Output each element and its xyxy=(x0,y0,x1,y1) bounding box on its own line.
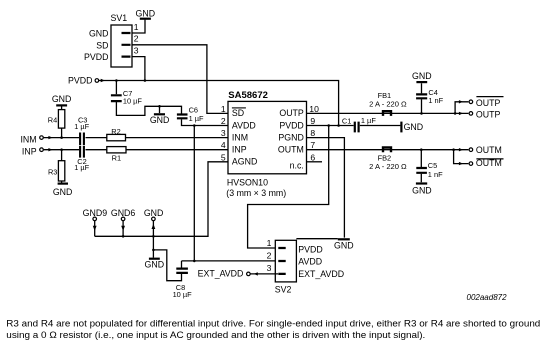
svg-text:GND: GND xyxy=(145,260,165,270)
wire C8 top lead xyxy=(181,261,183,268)
capacitor C5 plates xyxy=(416,168,427,173)
svg-text:HVSON10: HVSON10 xyxy=(227,178,268,188)
terminal GND xyxy=(152,217,156,221)
junction GND bus xyxy=(152,235,155,238)
svg-text:7: 7 xyxy=(310,140,315,150)
wire SV1 pin1 to GND xyxy=(132,20,145,33)
wire C7 bottom to C6 top xyxy=(116,102,181,115)
wire GND riser xyxy=(152,221,154,236)
resistor R2 xyxy=(107,134,126,140)
svg-text:10: 10 xyxy=(309,104,319,114)
svg-text:GND: GND xyxy=(89,29,109,39)
svg-text:INP: INP xyxy=(232,145,247,155)
ground bar PGND xyxy=(338,238,350,240)
svg-text:INP: INP xyxy=(22,146,37,156)
wire SV1 pin3 to PVDD rail xyxy=(132,57,145,81)
svg-text:3: 3 xyxy=(267,263,272,273)
svg-text:EXT_AVDD: EXT_AVDD xyxy=(198,269,244,279)
svg-text:OUTP: OUTP xyxy=(476,98,501,108)
terminal OUTM bar xyxy=(469,162,473,166)
wire INP line xyxy=(44,149,228,151)
wire INM line xyxy=(44,137,228,139)
junction R3 INP xyxy=(60,148,63,151)
ground bar below R3 xyxy=(58,183,68,185)
connector SV2 pin stubs xyxy=(278,248,285,274)
svg-text:R4: R4 xyxy=(48,116,57,125)
op-amp U1 SA58672 box xyxy=(228,101,307,173)
arrowhead OUTP bar xyxy=(459,100,463,103)
svg-text:R3: R3 xyxy=(48,167,57,176)
svg-text:PVDD: PVDD xyxy=(279,120,303,130)
ground bar below bus xyxy=(149,258,160,260)
wire U1 pin6 n.c. stub xyxy=(307,161,323,163)
svg-text:AVDD: AVDD xyxy=(298,257,322,267)
wire OUTP line xyxy=(307,112,469,114)
svg-text:OUTM: OUTM xyxy=(278,145,304,155)
svg-text:GND: GND xyxy=(150,115,170,125)
terminal EXT_AVDD xyxy=(247,272,251,276)
svg-text:2 A - 220 Ω: 2 A - 220 Ω xyxy=(369,100,407,109)
junction AVDD drop xyxy=(193,124,196,127)
wire OUTP branch up xyxy=(455,102,468,114)
wire AGND from U1 pin5 to bus xyxy=(95,162,228,237)
svg-text:PVDD: PVDD xyxy=(298,244,322,254)
wire SD net SV1 pin2 to U1 pin1 xyxy=(132,45,228,114)
wire C6 bottom to U1 pin2 AVDD xyxy=(182,119,229,125)
wire R4 leads xyxy=(61,106,63,137)
wire C5 leads xyxy=(420,150,422,183)
wire GND6 riser xyxy=(122,221,124,236)
capacitor C3 plates xyxy=(80,133,84,146)
svg-text:C1: C1 xyxy=(342,116,351,125)
svg-text:SD: SD xyxy=(96,40,108,50)
svg-text:10 µF: 10 µF xyxy=(123,97,143,106)
junction R4 INM xyxy=(60,136,63,139)
wire GND stub mid xyxy=(159,106,161,113)
junction C4 OUTP xyxy=(420,112,423,115)
svg-text:1: 1 xyxy=(221,104,226,114)
svg-text:OUTM: OUTM xyxy=(476,145,502,155)
svg-text:AVDD: AVDD xyxy=(232,120,256,130)
svg-text:PVDD: PVDD xyxy=(84,52,108,62)
ground bar mid C7 tap xyxy=(154,113,165,115)
wire C4 leads xyxy=(421,83,423,113)
junction OUTP branch xyxy=(454,112,457,115)
svg-text:GND: GND xyxy=(52,94,72,104)
svg-text:AGND: AGND xyxy=(232,157,257,167)
wire U1 pin8 PGND down xyxy=(307,138,345,238)
svg-text:SA58672: SA58672 xyxy=(228,90,268,101)
svg-text:1 µF: 1 µF xyxy=(189,114,204,123)
svg-text:3: 3 xyxy=(134,45,139,55)
junction GND6 bus xyxy=(122,235,125,238)
svg-text:R1: R1 xyxy=(112,153,121,162)
resistor R4 xyxy=(58,110,64,129)
svg-text:R3 and R4 are not populated fo: R3 and R4 are not populated for differen… xyxy=(6,319,540,329)
svg-text:INM: INM xyxy=(20,134,36,144)
resistor R3 xyxy=(58,161,64,181)
wire OUTM branch down xyxy=(454,150,469,164)
arrowhead OUTM xyxy=(459,148,463,151)
arrowhead GND6 down xyxy=(121,226,125,231)
capacitor C2 plates xyxy=(80,146,84,158)
svg-text:OUTM: OUTM xyxy=(476,158,502,168)
terminal GND9 xyxy=(93,217,97,221)
svg-text:PGND: PGND xyxy=(278,132,303,142)
svg-text:1: 1 xyxy=(267,238,272,248)
ferrite bead FB2 xyxy=(383,148,391,153)
svg-text:(3 mm × 3 mm): (3 mm × 3 mm) xyxy=(226,188,286,198)
capacitor C4 plates xyxy=(416,94,427,98)
terminal OUTP bar xyxy=(469,100,473,104)
svg-text:8: 8 xyxy=(310,128,315,138)
wire C8 bottom loop xyxy=(153,250,181,281)
svg-text:002aad872: 002aad872 xyxy=(467,293,508,302)
svg-text:GND: GND xyxy=(412,186,432,196)
svg-text:1 nF: 1 nF xyxy=(428,96,443,105)
wire bus to ground symbol xyxy=(152,236,154,257)
ground bar below C5 xyxy=(416,182,427,184)
svg-text:1 µF: 1 µF xyxy=(74,163,89,172)
terminal OUTP xyxy=(469,112,473,116)
junction AVDD SV2 xyxy=(193,260,196,263)
svg-text:9: 9 xyxy=(310,116,315,126)
svg-text:2: 2 xyxy=(267,251,272,261)
connector SV2 box xyxy=(275,240,296,282)
svg-text:2: 2 xyxy=(134,34,139,44)
svg-text:GND6: GND6 xyxy=(111,208,136,218)
svg-text:GND: GND xyxy=(136,9,156,19)
junction C5 OUTM xyxy=(420,148,423,151)
svg-text:4: 4 xyxy=(221,140,226,150)
svg-text:GND: GND xyxy=(144,208,164,218)
svg-text:2 A - 220 Ω: 2 A - 220 Ω xyxy=(369,162,407,171)
ground bar right of C1 xyxy=(400,122,402,133)
svg-text:5: 5 xyxy=(221,152,226,162)
ground bar above C4 xyxy=(416,81,427,83)
svg-text:1 µF: 1 µF xyxy=(361,116,376,125)
svg-text:R2: R2 xyxy=(111,127,120,136)
svg-text:GND: GND xyxy=(412,71,432,81)
junction PVDD drop pin9 xyxy=(327,124,330,127)
arrowhead PVDD xyxy=(101,79,105,82)
wire PVDD rail xyxy=(99,81,339,126)
junction C7 rail xyxy=(115,79,118,82)
terminal OUTM xyxy=(469,148,473,152)
svg-text:10 µF: 10 µF xyxy=(173,290,193,299)
wire U1 pin9 to C1 xyxy=(307,125,401,127)
junction GND tap mid xyxy=(158,105,161,108)
svg-text:GND: GND xyxy=(53,187,73,197)
arrowhead GND9 down xyxy=(93,226,97,231)
capacitor C1 plates xyxy=(355,122,359,133)
terminal INM xyxy=(40,136,44,140)
svg-text:6: 6 xyxy=(310,152,315,162)
terminal GND6 xyxy=(121,217,125,221)
svg-text:GND: GND xyxy=(404,122,424,132)
wire OUTM line xyxy=(307,149,469,151)
svg-text:OUTP: OUTP xyxy=(476,110,501,120)
svg-text:SD: SD xyxy=(232,108,244,118)
junction rail pin9 xyxy=(337,124,340,127)
svg-text:EXT_AVDD: EXT_AVDD xyxy=(298,269,344,279)
ground bar above R4 xyxy=(56,104,67,106)
svg-text:SV1: SV1 xyxy=(111,13,128,23)
wire R3 leads xyxy=(61,150,63,183)
svg-text:SV2: SV2 xyxy=(275,285,292,295)
svg-text:3: 3 xyxy=(221,128,226,138)
arrowhead GND up xyxy=(152,224,156,229)
wire GND9 riser xyxy=(94,221,96,236)
wire EXT_AVDD to SV2 pin3 xyxy=(251,273,279,275)
wire AVDD to SV2 pin2 xyxy=(182,260,276,262)
junction SV1 pin3 rail xyxy=(144,79,147,82)
wire AVDD drop to SV2 xyxy=(193,126,195,261)
arrowhead INM xyxy=(48,136,52,139)
arrowhead OUTM bar xyxy=(459,162,463,165)
svg-text:GND: GND xyxy=(334,240,354,250)
svg-text:2: 2 xyxy=(221,116,226,126)
svg-text:PVDD: PVDD xyxy=(68,76,92,86)
arrowhead EXT_AVDD left xyxy=(254,272,258,275)
ferrite bead FB1 xyxy=(383,111,391,116)
svg-text:C5: C5 xyxy=(428,161,437,170)
terminal INP xyxy=(40,148,44,152)
connector SV1 box xyxy=(111,25,132,67)
ground bar SV1 top xyxy=(140,18,151,20)
svg-text:n.c.: n.c. xyxy=(290,160,304,170)
capacitor C8 plates xyxy=(176,269,188,273)
svg-text:OUTP: OUTP xyxy=(279,108,304,118)
svg-text:1: 1 xyxy=(134,22,139,32)
resistor R1 xyxy=(107,147,126,153)
svg-text:GND9: GND9 xyxy=(83,208,108,218)
wire PVDD to SV2 pin1 xyxy=(248,126,329,249)
svg-text:1 µF: 1 µF xyxy=(74,122,89,131)
wire SV2 corner to ground bar xyxy=(296,238,337,240)
junction C8 branch xyxy=(152,249,155,252)
wire C7 top lead xyxy=(115,81,117,95)
capacitor C6 plates xyxy=(177,115,188,119)
connector SV1 pin stubs xyxy=(122,33,131,57)
svg-text:1 nF: 1 nF xyxy=(428,170,443,179)
svg-text:INM: INM xyxy=(232,132,248,142)
terminal PVDD xyxy=(95,79,99,83)
capacitor C7 plates xyxy=(111,95,122,101)
junction OUTM branch xyxy=(452,148,455,151)
svg-text:using a 0 Ω resistor (i.e., on: using a 0 Ω resistor (i.e., one input is… xyxy=(6,330,425,340)
arrowhead OUTP xyxy=(459,112,463,115)
arrowhead INP xyxy=(48,148,52,151)
